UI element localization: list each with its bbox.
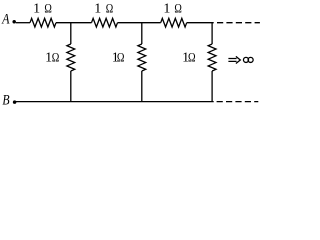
svg-text:Ω: Ω — [44, 1, 52, 16]
label R1 value 1 Ohm — [33, 1, 52, 17]
svg-text:Ω: Ω — [174, 1, 182, 16]
wire: R6 to bottom rail — [211, 71, 213, 102]
node B terminal dot — [13, 100, 17, 104]
label R3 value 1 Ohm — [163, 1, 182, 17]
svg-text:Ω: Ω — [188, 49, 196, 64]
svg-text:A: A — [1, 12, 9, 28]
node A terminal dot — [12, 20, 16, 24]
svg-text:Ω: Ω — [117, 49, 125, 64]
label R6 value 1 Ohm — [182, 49, 196, 65]
wire: bottom rail dashed continuation to infinity — [217, 101, 259, 103]
svg-text:1: 1 — [33, 2, 40, 17]
symbol: implies-infinity (ladder continues to infinity) — [228, 56, 253, 63]
wire: node 1 drop from top rail — [70, 23, 72, 44]
wire: node 3 drop from top rail — [211, 23, 213, 44]
resistor R6 1 ohm shunt (right vertical) — [208, 44, 216, 71]
svg-text:1: 1 — [94, 2, 101, 17]
label R2 value 1 Ohm — [94, 1, 113, 17]
svg-text:1: 1 — [163, 2, 170, 17]
label R4 value 1 Ohm — [45, 49, 59, 65]
svg-text:Ω: Ω — [52, 49, 60, 64]
wire: R5 to bottom rail — [141, 71, 143, 102]
svg-text:B: B — [2, 93, 9, 109]
wire: top rail dashed continuation to infinity — [217, 22, 260, 24]
svg-text:Ω: Ω — [106, 1, 114, 16]
wire: node A to resistor R1 — [16, 22, 30, 24]
resistor R4 1 ohm shunt (left vertical) — [67, 44, 75, 71]
wire: R1 to node 1 / R2 — [56, 22, 92, 24]
resistor R5 1 ohm shunt (middle vertical) — [138, 44, 146, 71]
wire: R2 to node 2 / R3 — [118, 22, 161, 24]
resistor R1 1 ohm series (top rail, left) — [30, 18, 56, 27]
wire: bottom rail from node B to node 3 — [16, 101, 214, 103]
wire: node 2 drop from top rail — [141, 23, 143, 44]
label R5 value 1 Ohm — [112, 49, 125, 65]
wire: R3 to node 3 (top right end) — [187, 22, 214, 24]
resistor R3 1 ohm series (top rail, right) — [161, 18, 187, 27]
resistor R2 1 ohm series (top rail, middle) — [92, 18, 118, 27]
wire: R4 to bottom rail — [70, 71, 72, 102]
